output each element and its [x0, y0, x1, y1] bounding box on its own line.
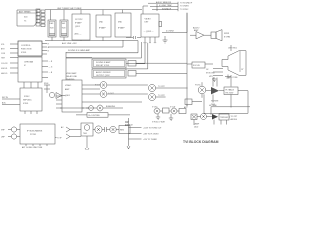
svg-text:SOUND IF AMP: SOUND IF AMP	[96, 61, 111, 64]
svg-text:AMP: AMP	[65, 88, 70, 91]
svg-text:BLANKING: BLANKING	[106, 105, 116, 108]
svg-text:+115V TO HORIZ OUT: +115V TO HORIZ OUT	[143, 128, 162, 130]
regulator transistor	[110, 126, 116, 132]
svg-text:4.5 MHZ: 4.5 MHZ	[166, 30, 174, 32]
horiz amp triangle	[211, 87, 219, 94]
keyer transistor	[49, 92, 54, 97]
AC plug prongs	[61, 126, 74, 139]
antenna box label	[19, 11, 31, 23]
ground under crt pins	[212, 77, 217, 82]
svg-text:H OSC: H OSC	[195, 84, 201, 86]
ground sym mid	[163, 36, 168, 43]
vert sync opamp	[89, 106, 94, 111]
svg-text:H DRIVE: H DRIVE	[211, 101, 219, 103]
svg-text:3RD: 3RD	[118, 22, 123, 24]
svg-text:SPKR: SPKR	[224, 33, 230, 35]
svg-text:TRIPLER: TRIPLER	[220, 117, 229, 119]
driver transistor Q4	[148, 93, 155, 100]
nested takeoff wires	[48, 40, 148, 69]
svg-text:VHOLD: VHOLD	[1, 68, 8, 70]
control block G	[18, 41, 42, 56]
svg-text:REG: REG	[120, 130, 125, 132]
svg-text:2ND: 2ND	[99, 22, 104, 24]
horiz labels	[211, 101, 219, 106]
svg-text:IF AMP: IF AMP	[118, 27, 125, 30]
video block L	[56, 80, 82, 112]
sound if block J	[92, 59, 187, 68]
svg-text:R503: R503	[44, 83, 48, 85]
svg-text:1ST PIX: 1ST PIX	[75, 19, 83, 21]
svg-text:VIDEO: VIDEO	[65, 85, 72, 87]
agc amp triangle	[56, 93, 62, 99]
svg-text:V OSC: V OSC	[152, 106, 158, 108]
svg-text:IF AMP: IF AMP	[75, 21, 82, 24]
sound takeoff labels	[156, 1, 193, 11]
svg-text:KEY IN: KEY IN	[2, 97, 9, 99]
B+ branch lines	[129, 118, 142, 146]
svg-text:AGC LINE +18V: AGC LINE +18V	[62, 42, 77, 45]
svg-text:CONTROL: CONTROL	[21, 45, 32, 47]
speaker LS1	[211, 30, 230, 41]
title text	[183, 140, 219, 144]
svg-text:FOCUS: FOCUS	[193, 65, 200, 67]
output transistor Q1	[100, 82, 107, 89]
blanking transistor	[97, 105, 103, 111]
svg-text:VIDEO AMP: VIDEO AMP	[66, 72, 77, 75]
bus label	[57, 8, 82, 10]
svg-text:IF AMP: IF AMP	[99, 27, 106, 30]
wire bottom return	[45, 37, 138, 41]
svg-text:IC501: IC501	[21, 52, 27, 54]
vert ground symbols	[156, 114, 160, 120]
wire bus stubs	[51, 10, 123, 20]
svg-text:UHF TUNER VHF TUNER: UHF TUNER VHF TUNER	[57, 8, 82, 10]
svg-text:19": 19"	[241, 69, 244, 71]
hv cap	[225, 75, 231, 79]
afc box	[184, 99, 192, 109]
wire video outputs	[82, 85, 142, 102]
svg-text:HV 25KV: HV 25KV	[226, 92, 235, 94]
bottom-left tuner box	[1, 124, 62, 149]
filter cap	[102, 127, 110, 132]
hv rect transistor	[201, 114, 207, 120]
svg-text:SEP AGC: SEP AGC	[23, 98, 32, 101]
svg-text:KR KG KB: KR KG KB	[206, 73, 215, 75]
svg-text:TO CRT: TO CRT	[158, 95, 166, 97]
svg-text:FLYBACK: FLYBACK	[226, 88, 235, 91]
svg-text:CRT V901: CRT V901	[228, 48, 237, 50]
sync block I	[2, 88, 42, 114]
crystal filter A	[48, 20, 56, 37]
crystal filter B	[60, 20, 68, 37]
svg-text:AUDIO TAKEOFF: AUDIO TAKEOFF	[156, 1, 172, 4]
bottom wire label	[62, 42, 77, 45]
svg-text:TO SYNC: TO SYNC	[180, 9, 189, 11]
hv tripler arrow	[212, 114, 218, 120]
svg-text:4.5 MHZ TRAP: 4.5 MHZ TRAP	[159, 4, 173, 7]
svg-text:G OUT: G OUT	[108, 93, 115, 95]
svg-text:AMP: AMP	[194, 29, 199, 32]
svg-text:+18V TO IF, VIDEO: +18V TO IF, VIDEO	[143, 134, 159, 136]
svg-text:CHROMA: CHROMA	[24, 60, 34, 63]
svg-text:IC301: IC301	[23, 103, 29, 105]
svg-text:D402: D402	[194, 126, 198, 128]
control block H	[18, 57, 42, 82]
svg-text:— Q205 —: — Q205 —	[144, 31, 154, 33]
driver transistor Q3	[148, 84, 155, 91]
antenna input box	[17, 10, 37, 26]
svg-text:SOUND IF 4.5MHZ AMP: SOUND IF 4.5MHZ AMP	[68, 49, 91, 52]
svg-text:SOUND IF: SOUND IF	[162, 8, 172, 10]
svg-text:AGC —: AGC —	[75, 33, 82, 36]
output transistor Q2	[100, 91, 107, 98]
crt pin labels	[206, 69, 215, 78]
svg-text:FUNCTION: FUNCTION	[21, 48, 32, 50]
capacitor on E output	[126, 36, 141, 39]
svg-text:SYNC: SYNC	[24, 96, 30, 98]
IF amp block D	[96, 15, 111, 37]
wire right bus vertical	[142, 13, 187, 106]
hv tripler box	[219, 114, 229, 120]
wire sound down	[143, 4, 157, 14]
video det block F	[141, 14, 162, 37]
vert osc cluster	[154, 108, 160, 114]
svg-text:AUDIO DRIVER: AUDIO DRIVER	[96, 71, 111, 74]
pincushion text	[125, 122, 130, 127]
svg-text:COLOR: COLOR	[1, 63, 8, 65]
bottom right damper box	[191, 114, 197, 120]
svg-text:VOL: VOL	[1, 44, 5, 46]
svg-text:B+ DISTRIB: B+ DISTRIB	[89, 115, 101, 117]
regulator box	[119, 126, 130, 134]
IF amp block E	[115, 13, 131, 37]
crt drive box	[187, 62, 213, 68]
terminal strip TB1	[36, 9, 45, 27]
svg-text:OUTPUT Q202: OUTPUT Q202	[96, 75, 111, 77]
audio amp triangle	[196, 32, 204, 39]
rectifier circle	[95, 126, 102, 133]
svg-text:— G: — G	[49, 66, 53, 68]
svg-text:R OUT: R OUT	[95, 85, 101, 87]
B+ bus label box	[76, 113, 130, 118]
IF amp block C	[72, 14, 90, 40]
svg-text:PEAKING: PEAKING	[66, 78, 75, 81]
svg-text:V HOLD V SIZE: V HOLD V SIZE	[152, 122, 166, 124]
svg-text:+12V TO TUNER: +12V TO TUNER	[143, 139, 158, 141]
wire top bus	[37, 9, 142, 11]
svg-text:ANT TERMS: ANT TERMS	[19, 11, 31, 14]
svg-text:IF SUBCHASSIS: IF SUBCHASSIS	[27, 130, 43, 133]
svg-text:FM DET IC201: FM DET IC201	[96, 65, 110, 67]
svg-text:CON: CON	[1, 53, 6, 55]
wires H to I	[24, 82, 38, 88]
svg-text:DELAY LINE: DELAY LINE	[66, 75, 77, 78]
flyback box	[224, 87, 238, 95]
power transformer box	[81, 123, 93, 136]
svg-text:PC201: PC201	[30, 134, 37, 136]
svg-text:8 OHM: 8 OHM	[224, 36, 230, 38]
wire mid horizontal	[66, 52, 138, 54]
wire flyback feedback	[204, 91, 248, 114]
horiz osc transistor	[198, 86, 206, 94]
wire F bottom stubs	[145, 37, 155, 42]
svg-text:G2: G2	[206, 69, 208, 71]
svg-text:TO SOUND IF: TO SOUND IF	[180, 2, 193, 4]
left pin labels column	[1, 44, 18, 75]
audio block K	[92, 69, 187, 78]
svg-text:TVI BLOCK DIAGRAM: TVI BLOCK DIAGRAM	[183, 140, 219, 144]
svg-text:HHOLD: HHOLD	[1, 73, 8, 75]
svg-text:AFT CH SEL FINE TUNE: AFT CH SEL FINE TUNE	[22, 146, 43, 149]
svg-text:HV LEAD: HV LEAD	[209, 104, 217, 107]
pin stubs right of G/H	[42, 43, 53, 77]
svg-text:TO CRT: TO CRT	[158, 86, 166, 88]
svg-text:V OUT: V OUT	[170, 106, 176, 108]
misc parts right of H	[44, 85, 50, 93]
video amp text block	[66, 72, 77, 81]
svg-text:VIDEO: VIDEO	[145, 19, 152, 21]
svg-text:TO VIDEO: TO VIDEO	[180, 6, 190, 8]
svg-text:DAMP: DAMP	[194, 123, 200, 126]
svg-text:ANODE: ANODE	[231, 118, 238, 121]
wire sound takeoff lines	[148, 3, 178, 10]
svg-text:TO CRT: TO CRT	[231, 116, 239, 118]
CRT V1	[222, 45, 246, 87]
svg-text:T601: T601	[83, 133, 87, 135]
wire 4.5mhz line	[162, 13, 187, 33]
